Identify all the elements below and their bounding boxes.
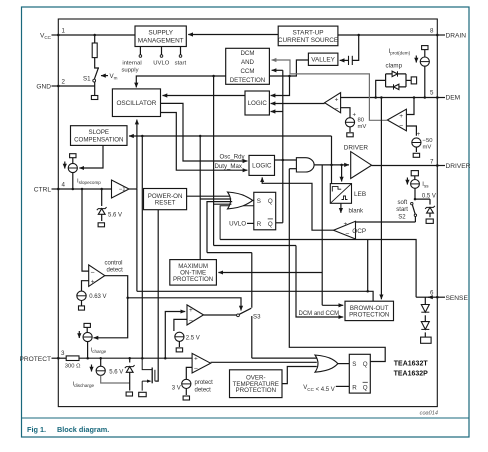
OR2 output to latch2 S <box>338 363 350 365</box>
block OVER-TEMPERATURE PROTECTION <box>230 370 283 398</box>
sense diode link <box>424 315 426 321</box>
Iprot arrow <box>415 56 417 63</box>
svg-text:1: 1 <box>62 28 66 35</box>
svg-text:LEB: LEB <box>354 191 366 198</box>
osc output DutyMax <box>161 113 248 171</box>
terminal 80mV <box>347 133 353 137</box>
terminal M1 source <box>139 392 147 396</box>
PROTECT wire 2 <box>79 357 192 359</box>
comparator protect detect <box>192 353 211 373</box>
Vm arrow <box>101 75 108 77</box>
LEB to OCP blank <box>340 203 342 213</box>
svg-text:Islopecomp: Islopecomp <box>77 179 101 186</box>
-50mV comp - input <box>406 126 416 136</box>
wire L2 to brown-out lower <box>296 246 343 318</box>
svg-text:2.5 V: 2.5 V <box>186 335 200 341</box>
OR1 input2 down to max-on-time <box>199 136 201 260</box>
long wire into slope compensation <box>129 135 332 137</box>
svg-text:UVLO: UVLO <box>153 61 169 67</box>
svg-text:5: 5 <box>430 90 434 97</box>
DEM wire <box>341 97 438 99</box>
long wire y291 to brown-out <box>137 240 368 291</box>
svg-text:detect: detect <box>195 387 212 393</box>
svg-text:+: + <box>344 221 348 228</box>
DRAIN wire <box>338 34 437 36</box>
svg-text:COMPENSATION: COMPENSATION <box>74 136 123 143</box>
svg-text:MANAGEMENT: MANAGEMENT <box>138 37 184 44</box>
svg-text:7: 7 <box>430 159 434 166</box>
terminal clamp <box>411 77 416 84</box>
terminal 2.5V <box>176 348 182 352</box>
svg-text:START-UP: START-UP <box>292 29 323 36</box>
latch2 Q feedback to AND <box>289 169 385 362</box>
wire 0.63V to terminal <box>81 301 83 306</box>
current source Islopecomp <box>68 163 77 172</box>
node slope wire OR1 <box>199 135 202 138</box>
svg-text:Duty_Max: Duty_Max <box>215 163 242 170</box>
svg-text:AND: AND <box>241 59 255 66</box>
Idischarge arrow <box>91 365 93 372</box>
node protect/ctrlv <box>141 357 144 360</box>
svg-text:−: − <box>399 123 403 130</box>
svg-text:+: + <box>353 113 357 119</box>
svg-text:start: start <box>396 207 408 213</box>
wire drain to C1 <box>352 35 358 60</box>
POR second output to M1 gate <box>155 210 158 381</box>
svg-text:blank: blank <box>349 208 365 215</box>
node DEM/Iprot <box>424 96 427 99</box>
node protect/5.6 <box>99 357 102 360</box>
wire supply to Iss <box>414 176 416 180</box>
block MAXIMUM ON-TIME PROTECTION <box>170 260 217 286</box>
wire startup to supply management <box>188 34 278 36</box>
clamp diode D1 <box>392 71 397 76</box>
terminal zener ctrl <box>98 223 104 227</box>
svg-text:−: − <box>189 317 193 324</box>
svg-text:DRIVER: DRIVER <box>446 163 471 170</box>
block LEB <box>330 184 351 204</box>
sense diode D3 <box>421 305 429 313</box>
node valley branch 2 <box>212 75 215 78</box>
OR1 input3 <box>207 202 232 253</box>
driver wire to LEB <box>341 165 343 182</box>
wire 80mV to terminal <box>349 127 351 132</box>
zener 5.6V lead <box>101 189 103 206</box>
ground terminal below S1 <box>91 96 97 100</box>
ctrl bus vertical <box>136 189 138 291</box>
svg-text:+: + <box>399 113 403 120</box>
svg-text:VALLEY: VALLEY <box>311 57 335 64</box>
block START-UP CURRENT SOURCE <box>278 26 338 46</box>
comparator control detect <box>89 265 105 287</box>
block SLOPE COMPENSATION <box>71 126 128 146</box>
supply terminal Iss <box>411 171 418 176</box>
wire Iprot to DEM <box>424 66 426 97</box>
logic2 output to AND <box>275 159 297 161</box>
capacitor C1 <box>349 56 353 65</box>
protect detect output to OR2 <box>211 361 317 363</box>
zener 5.6V lead 2 <box>101 214 103 221</box>
pin 3 joint <box>57 357 59 359</box>
current source Idischarge 5.6V <box>96 366 105 375</box>
amplifier -1 <box>112 180 130 198</box>
terminal 3V <box>183 396 189 400</box>
svg-text:−: − <box>334 106 338 113</box>
sense diode chain top <box>424 297 426 304</box>
comparator DEM valley <box>325 93 341 113</box>
svg-text:−1: −1 <box>119 187 127 193</box>
2.5V comp plus input from protect <box>165 312 185 359</box>
zener 5.6V protect <box>125 365 135 372</box>
osc control input from ctrl bus <box>136 120 138 189</box>
wire supply to Islopecomp <box>72 158 74 164</box>
supply mgmt output start <box>180 47 182 55</box>
block UVLO <box>220 206 254 240</box>
svg-text:Osc_Rdy: Osc_Rdy <box>220 154 246 161</box>
switch S2 blade <box>412 205 415 215</box>
wire 5.6V src bottom <box>101 375 130 383</box>
resistor R protect 300 <box>66 356 79 361</box>
svg-text:SENSE: SENSE <box>446 295 469 302</box>
voltage source 0.63V <box>77 291 86 300</box>
vcc4.5 to latch2 R <box>336 385 350 387</box>
long wire UVLO-OCP-sense <box>220 240 416 298</box>
svg-text:6: 6 <box>430 290 434 297</box>
svg-text:+: + <box>91 279 95 286</box>
svg-text:PROTECTION: PROTECTION <box>236 387 277 394</box>
block VALLEY <box>308 53 338 65</box>
control detect to S3 arrow <box>128 298 241 311</box>
supply terminal Islopecomp <box>70 154 76 158</box>
svg-text:Q: Q <box>363 361 368 368</box>
svg-text:DRAIN: DRAIN <box>446 33 467 40</box>
buffer DRIVER <box>351 152 372 179</box>
svg-text:TEA1632T: TEA1632T <box>394 361 429 368</box>
osc output OscRdy <box>161 103 248 161</box>
svg-text:S: S <box>257 198 261 205</box>
block SUPPLY MANAGEMENT <box>135 26 186 47</box>
svg-text:5.6 V: 5.6 V <box>108 213 122 219</box>
svg-text:PROTECT: PROTECT <box>19 356 51 363</box>
switch S3 contact <box>237 314 240 317</box>
terminal zener protect <box>126 392 132 396</box>
pin 4 stub <box>52 188 59 190</box>
svg-text:−50: −50 <box>423 138 434 144</box>
AND output to driver <box>314 164 349 166</box>
svg-text:Q: Q <box>363 384 368 391</box>
DEM comp output to logic1 <box>271 103 325 105</box>
wire 2.5V to terminal <box>178 341 180 347</box>
2.5V comp output to S3 <box>204 314 237 316</box>
wire Islopecomp to CTRL <box>72 173 74 189</box>
zener 5.6V ctrl <box>97 207 107 214</box>
pin 8 joint <box>436 34 438 36</box>
OCP plus input from soft start <box>356 221 416 223</box>
3V source lead <box>186 367 192 379</box>
node VCC/R1 <box>93 34 96 37</box>
clamp right lead <box>406 79 411 81</box>
node Iss 0.5V <box>414 198 417 201</box>
node DEM/clamp <box>374 96 377 99</box>
svg-text:start: start <box>175 61 187 67</box>
svg-text:Idischarge: Idischarge <box>73 382 95 389</box>
svg-text:R: R <box>352 384 357 391</box>
svg-text:0.63 V: 0.63 V <box>89 294 106 300</box>
wire protect to 5.6V src <box>100 358 102 366</box>
wire dcm ccm to brown-out upper <box>322 304 343 306</box>
svg-text:control: control <box>105 260 123 266</box>
caption divider rule <box>22 417 470 419</box>
pin 1 joint <box>57 34 59 36</box>
pin 1 stub <box>52 34 59 36</box>
pin 6 joint <box>436 296 438 298</box>
pin 2 joint <box>57 85 59 87</box>
Islopecomp arrow <box>64 162 66 169</box>
slope wire end to LEB <box>331 136 333 184</box>
comparator 2.5V <box>187 305 204 325</box>
svg-text:clamp: clamp <box>386 63 403 70</box>
node driver wire leb riser <box>330 164 333 167</box>
sense diode chain bottom <box>424 332 426 337</box>
logic1 input 3 from UVLO latch Q <box>271 70 283 223</box>
svg-text:DETECTION: DETECTION <box>230 77 265 84</box>
wire dem to brown-out <box>380 98 382 300</box>
-50mV comp + input <box>406 98 414 115</box>
wire S2 to OCP line <box>414 216 416 222</box>
voltage source -50mV <box>412 138 421 147</box>
svg-text:0.5 V: 0.5 V <box>422 193 436 199</box>
OR1 output to latch S <box>253 199 254 201</box>
node ctrl/zener <box>100 188 103 191</box>
switch S2 contact top <box>411 202 413 204</box>
comparator OCP <box>334 221 356 239</box>
svg-text:Q: Q <box>268 198 273 205</box>
DRIVER output wire pin7 <box>372 165 438 167</box>
clamp loop <box>386 74 406 87</box>
block LOGIC upper <box>245 91 269 115</box>
VCC wire to supply management <box>58 34 135 36</box>
pin 6 stub <box>437 296 445 298</box>
svg-text:supply: supply <box>121 68 138 74</box>
svg-text:PROTECTION: PROTECTION <box>173 276 213 283</box>
svg-text:soft: soft <box>398 200 408 206</box>
node protect/icharge <box>86 357 89 360</box>
svg-text:S: S <box>352 361 356 368</box>
terminal internal supply <box>139 55 142 58</box>
node valley riser <box>288 75 291 78</box>
zener 0.5V lead2 <box>429 213 431 217</box>
sense diode D4 <box>421 322 429 330</box>
node drain/cap <box>357 34 360 37</box>
svg-text:CTRL: CTRL <box>34 187 52 194</box>
S3 to OR2 input1 <box>252 357 317 359</box>
supply mgmt output internal supply <box>139 47 141 55</box>
zener 0.5V lead <box>429 199 431 204</box>
svg-text:300 Ω: 300 Ω <box>65 364 81 370</box>
SENSE wire inner <box>416 296 429 298</box>
wire 3V to terminal <box>185 389 187 396</box>
svg-text:S1: S1 <box>83 76 91 83</box>
voltage source 2.5V <box>175 332 184 341</box>
pin 7 joint <box>436 164 438 166</box>
svg-text:S2: S2 <box>398 214 406 220</box>
wire L2 horizontal <box>214 245 296 247</box>
pin 4 joint <box>57 188 59 190</box>
svg-text:protect: protect <box>195 380 214 386</box>
DEM comp - input <box>341 108 350 118</box>
svg-text:LOGIC: LOGIC <box>252 163 272 170</box>
control detect output <box>94 276 128 338</box>
POR output to OR1 <box>187 195 230 197</box>
svg-text:OSCILLATOR: OSCILLATOR <box>116 100 156 107</box>
flip-flop UVLO latch <box>254 192 276 230</box>
ctrl to control detect minus <box>82 189 89 271</box>
GND wire <box>58 85 94 87</box>
svg-text:2: 2 <box>62 79 66 86</box>
zener protect bottom lead <box>129 372 131 390</box>
wire Icharge to protect <box>87 342 89 359</box>
pin 7 stub <box>437 165 445 167</box>
svg-text:−: − <box>91 269 95 276</box>
zener 0.5V <box>425 206 435 213</box>
svg-text:−: − <box>345 231 349 238</box>
control detect plus from 0.63V <box>82 281 89 291</box>
node DEM/comp <box>413 96 416 99</box>
svg-text:S3: S3 <box>253 313 261 320</box>
node protect/zener <box>128 357 131 360</box>
logic2 bottom input from OCP <box>262 177 333 230</box>
-50mV comp output to DCM detection grey <box>272 60 388 120</box>
2.5V comp minus lead <box>174 319 187 331</box>
svg-text:Q: Q <box>268 221 273 228</box>
node driver wire leb <box>340 164 343 167</box>
latch1 labels <box>257 198 273 228</box>
pin 2 stub <box>52 85 59 87</box>
svg-text:+: + <box>417 132 421 138</box>
current source Icharge <box>83 332 92 341</box>
and gate U-AND <box>296 158 314 172</box>
node y291 junction <box>366 290 369 293</box>
wire -50mV to terminal <box>415 147 417 152</box>
OR1 input2 <box>200 198 231 200</box>
switch S3 blade <box>239 308 251 314</box>
svg-text:RESET: RESET <box>155 200 176 207</box>
svg-text:+: + <box>335 97 339 104</box>
switch S1 blade <box>94 68 98 79</box>
svg-text:SLOPE: SLOPE <box>89 129 109 136</box>
svg-text:3: 3 <box>61 350 65 357</box>
svg-text:5.6 V: 5.6 V <box>109 369 123 375</box>
diagram outer box <box>58 19 437 407</box>
Iss to node 0.5V <box>415 188 430 199</box>
pin 5 joint <box>436 96 438 98</box>
svg-text:TEA1632P: TEA1632P <box>394 371 429 378</box>
block LOGIC lower <box>249 155 275 175</box>
pin 3 stub <box>52 357 59 359</box>
OR1 input4 <box>214 203 232 205</box>
svg-text:DRIVER: DRIVER <box>344 144 369 151</box>
svg-text:8: 8 <box>430 28 434 35</box>
node slope wire ctrlv <box>141 135 144 138</box>
svg-text:OCP: OCP <box>352 228 366 235</box>
terminal start out <box>179 55 182 58</box>
UVLO box to latch R <box>247 222 254 224</box>
driver signal riser to protections <box>321 165 323 305</box>
Iss arrow <box>406 178 408 185</box>
svg-text:internal: internal <box>122 61 141 67</box>
latch1 Qbar up <box>276 222 283 224</box>
wire C1 to valley <box>340 59 349 61</box>
node dem brownout <box>380 96 383 99</box>
svg-text:CCM: CCM <box>241 68 255 75</box>
wire R1 to S1 <box>95 58 99 68</box>
svg-text:DCM: DCM <box>241 50 255 57</box>
svg-text:VCC < 4.5 V: VCC < 4.5 V <box>303 385 335 393</box>
svg-text:detect: detect <box>107 267 124 273</box>
supply terminal Iprot <box>422 46 428 50</box>
L3 to S3 riser <box>207 252 252 254</box>
svg-text:mV: mV <box>358 124 367 130</box>
terminal UVLO out <box>160 55 163 58</box>
node ctrl/control-detect <box>81 188 84 191</box>
node cd out 1 <box>126 297 129 300</box>
DCM detection input 2 <box>272 69 283 71</box>
long vertical valley-branch to L2 <box>213 76 215 246</box>
wire supply to Iprot src <box>424 50 426 57</box>
svg-text:Icharge: Icharge <box>91 348 107 355</box>
flip-flop protection latch <box>349 354 370 393</box>
Icharge arrow <box>78 331 80 338</box>
zener protect top lead <box>129 358 131 362</box>
CTRL wire <box>58 188 111 190</box>
terminal sense diodes <box>421 337 432 343</box>
wire slope comp to Islopecomp <box>79 145 103 168</box>
clamp left lead to DEM <box>376 80 386 97</box>
block BROWN-OUT PROTECTION <box>345 301 394 320</box>
svg-text:DEM: DEM <box>446 95 461 102</box>
svg-text:CURRENT SOURCE: CURRENT SOURCE <box>278 37 338 44</box>
latch2 labels <box>352 361 368 392</box>
svg-text:3 V: 3 V <box>172 385 181 391</box>
wire supply to Icharge <box>86 327 88 332</box>
wire S1 to ground <box>94 82 96 96</box>
voltage source 80mV <box>345 118 354 127</box>
voltage source 3V <box>182 379 191 388</box>
SENSE wire <box>428 296 437 298</box>
brown-out top link <box>368 291 373 301</box>
svg-text:+: + <box>189 307 193 314</box>
svg-text:GND: GND <box>36 84 51 91</box>
current source Iss <box>411 180 420 189</box>
svg-text:4: 4 <box>62 182 66 189</box>
pin 5 stub <box>437 97 445 99</box>
supply mgmt output UVLO <box>161 47 163 55</box>
valley output wire <box>136 60 308 87</box>
PROTECT wire <box>58 357 66 359</box>
mosfet M1 <box>142 358 155 390</box>
node logic2 out branch <box>282 159 285 162</box>
logic1 output to oscillator <box>163 95 246 97</box>
svg-text:LOGIC: LOGIC <box>248 100 268 107</box>
node ctrl/Islopecomp <box>72 188 75 191</box>
svg-text:Iss: Iss <box>422 182 429 189</box>
svg-text:80: 80 <box>358 118 365 124</box>
terminal 0.63V <box>79 306 85 310</box>
svg-text:−: − <box>194 365 198 372</box>
svg-text:SUPPLY: SUPPLY <box>148 30 173 37</box>
svg-text:Fig 1.Block diagram.: Fig 1.Block diagram. <box>27 425 109 434</box>
ctrl-v vertical to protect <box>141 136 143 358</box>
